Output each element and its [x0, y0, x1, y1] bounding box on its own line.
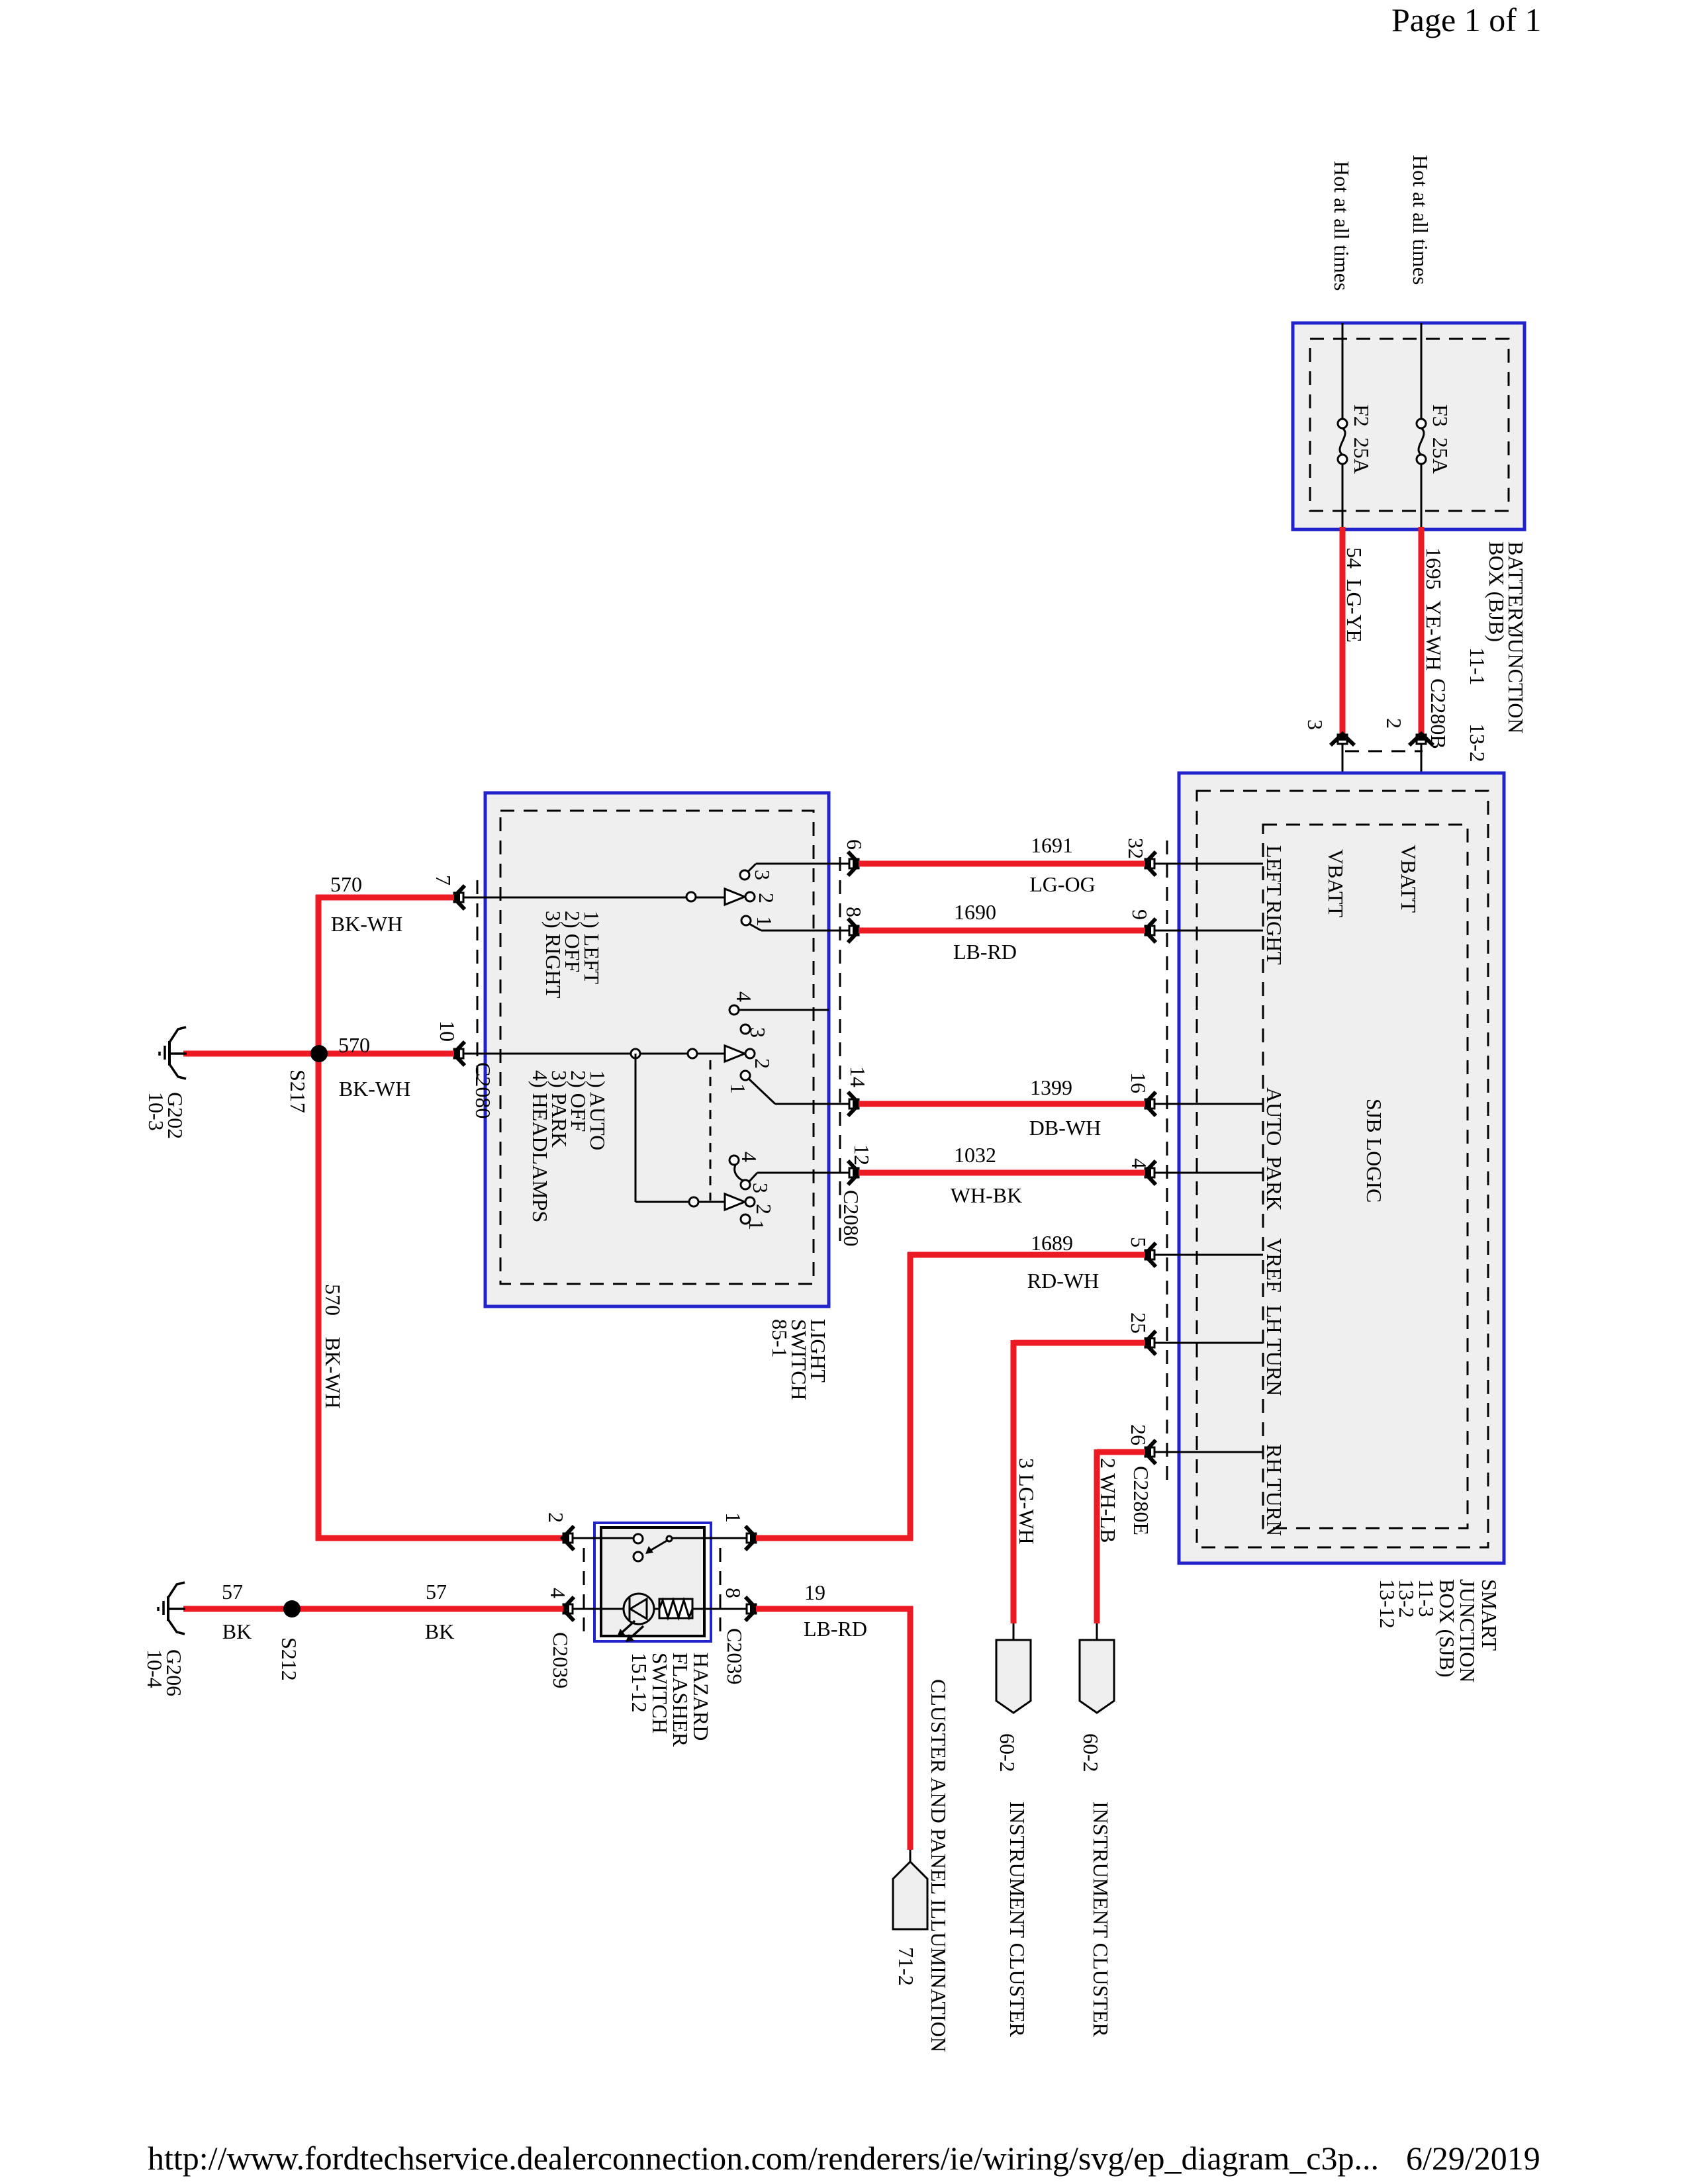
svg-text:2: 2	[752, 1204, 776, 1214]
C2280B dashed connector line	[1345, 751, 1423, 752]
svg-text:151-12: 151-12	[628, 1653, 651, 1713]
wire hazard pin1 to 1689	[756, 1535, 913, 1541]
pin 14 internal line	[775, 1103, 849, 1105]
smart junction box (SJB) outline	[1179, 773, 1504, 1563]
C2039 dashed line left	[583, 1548, 585, 1633]
svg-text:32: 32	[1124, 838, 1148, 859]
wire pin10 to wiper	[463, 1053, 726, 1055]
svg-text:13-2: 13-2	[1466, 723, 1489, 762]
svg-text:VBATT: VBATT	[1397, 844, 1421, 913]
contact 1 (turn)	[741, 916, 751, 925]
connector pin 10 C2080	[453, 1042, 465, 1066]
wire 570 BK-WH ground segment	[183, 1051, 454, 1057]
svg-text:VREF: VREF	[1262, 1238, 1286, 1293]
connector pin 3 of C2280B	[1331, 733, 1354, 745]
stub to 60-2 connector (right)	[1096, 1623, 1098, 1641]
resistor in hazard switch	[659, 1599, 692, 1618]
contact 4 (head)	[729, 1005, 739, 1015]
fuse F3 lead upper	[1421, 323, 1423, 420]
wire 2 WH-LB horizontal	[1097, 1449, 1145, 1455]
hazard pin8 internal line	[692, 1608, 747, 1610]
svg-text:3: 3	[1303, 719, 1327, 730]
svg-text:1690: 1690	[954, 900, 996, 924]
stub to 71-2 connector	[910, 1850, 912, 1863]
svg-text:19: 19	[804, 1580, 825, 1604]
hazard indicator LED	[624, 1594, 654, 1624]
connector pin 2 C2039	[562, 1526, 574, 1550]
svg-text:570: 570	[330, 872, 362, 896]
splice S212	[283, 1600, 301, 1617]
svg-text:S212: S212	[277, 1637, 301, 1681]
junction circle on headlamp wiper line	[688, 1049, 697, 1058]
SJB pin 16 internal line	[1154, 1103, 1263, 1105]
svg-text:570 BK-WH: 570 BK-WH	[321, 1284, 345, 1408]
wire 54 LG-YE	[1340, 527, 1346, 735]
C2080 dashed line left	[477, 880, 479, 1089]
svg-text:S217: S217	[286, 1069, 310, 1113]
splice S217	[310, 1045, 328, 1062]
svg-text:4: 4	[732, 991, 756, 1002]
connector pin 9 at SJB	[1144, 919, 1156, 942]
svg-text:C2280E: C2280E	[1129, 1466, 1153, 1535]
junction circle on lower wiper line	[689, 1197, 698, 1206]
hazard pin2 internal line	[573, 1537, 634, 1539]
contact 3 (head)	[741, 1024, 750, 1034]
svg-text:RH TURN: RH TURN	[1262, 1444, 1286, 1536]
svg-text:8: 8	[842, 907, 866, 917]
svg-text:3 LG-WH: 3 LG-WH	[1015, 1458, 1039, 1545]
wire 19 LB-RD horizontal	[756, 1606, 913, 1612]
SJB outer dashed boundary	[1197, 791, 1488, 1547]
svg-text:Page 1 of 1: Page 1 of 1	[1391, 1, 1541, 38]
bridge contact4-contact3	[735, 1165, 744, 1181]
svg-text:VBATT: VBATT	[1324, 849, 1348, 918]
hazard switch blade end	[633, 1552, 643, 1561]
svg-text:1691: 1691	[1031, 833, 1073, 857]
C2080 dashed line right	[839, 857, 841, 1241]
fuse F2 lead upper	[1342, 323, 1344, 420]
svg-text:1032: 1032	[954, 1143, 996, 1167]
connector pin 5 at SJB	[1144, 1243, 1156, 1267]
SJB pin 32 internal line	[1154, 863, 1263, 865]
contact1 to pin14 elbow	[749, 1079, 775, 1104]
svg-text:LB-RD: LB-RD	[953, 940, 1017, 964]
svg-text:F2 25A: F2 25A	[1350, 404, 1374, 474]
svg-text:RD-WH: RD-WH	[1027, 1269, 1099, 1293]
connector 71-2 cluster illumination	[893, 1862, 927, 1929]
SJB pin 4 internal line	[1154, 1172, 1263, 1174]
svg-text:BK-WH: BK-WH	[331, 912, 402, 936]
svg-text:C2280B: C2280B	[1427, 678, 1450, 749]
connector pin 16 at SJB	[1144, 1092, 1156, 1116]
wire stub pin2 into SJB	[1421, 744, 1423, 825]
ground G202	[160, 1027, 187, 1079]
connector pin 12 C2080	[848, 1161, 860, 1185]
svg-text:4: 4	[546, 1588, 570, 1598]
svg-text:C2080: C2080	[471, 1062, 495, 1118]
svg-text:DB-WH: DB-WH	[1029, 1116, 1101, 1140]
svg-text:85-1: 85-1	[768, 1319, 792, 1358]
svg-text:3: 3	[749, 1183, 773, 1193]
fuse F3 25A	[1417, 419, 1426, 464]
svg-text:WH-BK: WH-BK	[951, 1183, 1022, 1207]
svg-text:1399: 1399	[1030, 1075, 1072, 1099]
svg-text:BK-WH: BK-WH	[339, 1077, 410, 1101]
svg-text:14: 14	[846, 1066, 870, 1087]
light switch outline	[485, 793, 829, 1306]
wire 1689 vertical	[908, 1252, 914, 1541]
svg-text:26: 26	[1127, 1424, 1150, 1445]
connector pin 4 C2039	[562, 1597, 574, 1621]
pin 12 internal line	[757, 1172, 849, 1174]
SJB pin 9 internal line	[1154, 930, 1263, 932]
connector pin 25 at SJB	[1144, 1331, 1156, 1355]
connector pin 6 C2080	[848, 852, 860, 876]
svg-text:PARK: PARK	[1262, 1156, 1286, 1210]
svg-text:3: 3	[746, 1027, 770, 1038]
connector 60-2 instrument cluster (left)	[996, 1640, 1031, 1713]
hazard switch blade arrowhead	[645, 1546, 653, 1554]
pin 6 internal line	[756, 863, 849, 865]
fuse F2 lead lower	[1342, 463, 1344, 529]
svg-text:57: 57	[426, 1580, 447, 1604]
svg-text:Hot at all times: Hot at all times	[1330, 161, 1354, 291]
wire pin7 to wiper	[463, 897, 726, 899]
wire 1689 RD-WH horizontal	[908, 1252, 1145, 1258]
svg-text:C2039: C2039	[549, 1632, 573, 1688]
svg-text:1: 1	[726, 1083, 750, 1094]
wire 1691 LG-OG	[859, 861, 1145, 867]
wire 1690 LB-RD	[859, 928, 1145, 934]
turn switch wiper	[725, 889, 745, 905]
LED to resistor	[654, 1608, 659, 1610]
wire 3 LG-WH horizontal	[1013, 1340, 1145, 1346]
C2039 dashed line right	[720, 1548, 722, 1633]
svg-text:11-1: 11-1	[1466, 647, 1489, 685]
connector pin 1 C2039	[745, 1526, 757, 1550]
hazard switch contact left	[633, 1534, 643, 1543]
branch vertical line	[635, 1054, 637, 1202]
contact 3 (turn)	[740, 870, 749, 880]
svg-text:BK: BK	[425, 1619, 454, 1643]
contact 4 line	[739, 1009, 829, 1011]
svg-text:C2080: C2080	[839, 1190, 863, 1246]
svg-text:3) RIGHT: 3) RIGHT	[541, 911, 565, 999]
headlamp switch wiper	[725, 1046, 745, 1062]
mechanical link dashed	[710, 1060, 712, 1201]
contact 2 (head)	[745, 1049, 755, 1058]
svg-text:LG-OG: LG-OG	[1029, 872, 1096, 896]
svg-text:F3 25A: F3 25A	[1429, 404, 1452, 474]
svg-text:71-2: 71-2	[894, 1947, 918, 1986]
connector pin 4 at SJB	[1144, 1161, 1156, 1185]
svg-text:INSTRUMENT CLUSTER: INSTRUMENT CLUSTER	[1006, 1801, 1029, 2038]
SJB pin 5 internal line	[1154, 1254, 1263, 1256]
wire 19 vertical	[908, 1606, 914, 1850]
hazard switch contact right	[667, 1536, 672, 1541]
hazard pin1 internal line	[672, 1537, 747, 1539]
hazard pin4 internal line	[573, 1608, 624, 1610]
svg-text:570: 570	[338, 1033, 370, 1057]
wire 1399 DB-WH	[859, 1101, 1145, 1107]
fuse F2 25A	[1338, 419, 1347, 464]
SJB LOGIC dashed box	[1263, 825, 1468, 1528]
svg-text:1: 1	[745, 1220, 769, 1230]
svg-text:Hot at all times: Hot at all times	[1409, 155, 1432, 285]
svg-text:LB-RD: LB-RD	[804, 1617, 867, 1641]
svg-text:8: 8	[722, 1588, 745, 1598]
svg-text:57: 57	[222, 1580, 243, 1604]
svg-text:60-2: 60-2	[1079, 1733, 1103, 1772]
C2280 dashed connector line at SJB	[1166, 841, 1168, 1482]
svg-text:RIGHT: RIGHT	[1262, 900, 1286, 965]
junction circle on wiper line	[686, 892, 696, 901]
branch horizontal line	[635, 1201, 726, 1203]
svg-text:AUTO: AUTO	[1262, 1087, 1286, 1146]
svg-text:2: 2	[751, 1058, 774, 1069]
svg-text:2 WH-LB: 2 WH-LB	[1096, 1458, 1120, 1543]
svg-text:LH TURN: LH TURN	[1262, 1305, 1286, 1396]
svg-text:BOX (BJB): BOX (BJB)	[1485, 541, 1509, 642]
connector pin 14 C2080	[848, 1092, 860, 1116]
wire stub pin3 into SJB	[1342, 744, 1344, 825]
svg-text:LEFT: LEFT	[1262, 845, 1286, 896]
svg-text:1689: 1689	[1031, 1231, 1073, 1255]
wire 570 BK-WH vertical	[316, 895, 322, 1541]
svg-text:BK: BK	[222, 1619, 252, 1643]
contact3 to pin12 elbow	[749, 1173, 757, 1181]
light switch inner dashed boundary	[500, 811, 814, 1284]
SJB pin 25 internal line	[1154, 1342, 1263, 1344]
svg-text:CLUSTER AND PANEL ILLUMINATION: CLUSTER AND PANEL ILLUMINATION	[927, 1679, 951, 2052]
svg-text:9: 9	[1128, 909, 1152, 920]
wire 57 BK	[183, 1606, 563, 1612]
connector pin 7 C2080	[453, 886, 465, 909]
BJB inner dashed boundary	[1310, 339, 1509, 511]
svg-text:10-3: 10-3	[144, 1092, 168, 1131]
contact1 to pin8 elbow	[749, 924, 761, 931]
svg-text:25: 25	[1127, 1312, 1150, 1334]
svg-text:3: 3	[751, 870, 774, 880]
wire 570 to hazard pin2	[316, 1535, 563, 1541]
svg-text:54 LG-YE: 54 LG-YE	[1342, 547, 1366, 643]
svg-text:1: 1	[753, 916, 776, 927]
svg-text:http://www.fordtechservice.dea: http://www.fordtechservice.dealerconnect…	[148, 2140, 1379, 2177]
svg-text:4) HEADLAMPS: 4) HEADLAMPS	[528, 1070, 552, 1222]
fuse F3 lead lower	[1421, 463, 1423, 529]
svg-text:6: 6	[843, 839, 867, 850]
contact3 to pin6 elbow	[748, 864, 756, 872]
contact 2 (lower)	[745, 1197, 755, 1206]
contact 1 (head)	[741, 1071, 750, 1080]
svg-text:2: 2	[544, 1512, 568, 1523]
stub to 60-2 connector (left)	[1013, 1623, 1015, 1641]
svg-text:2: 2	[1382, 718, 1406, 729]
svg-text:16: 16	[1127, 1072, 1150, 1093]
wire 3 LG-WH vertical	[1011, 1340, 1017, 1623]
svg-text:13-12: 13-12	[1376, 1579, 1399, 1629]
svg-text:1695 YE-WH: 1695 YE-WH	[1422, 547, 1446, 671]
svg-text:10: 10	[436, 1021, 459, 1042]
connector pin 32 at SJB	[1144, 852, 1156, 876]
hazard flasher switch blue outline	[594, 1523, 711, 1641]
wire 1695 YE-WH	[1419, 527, 1425, 735]
lower pole wiper	[725, 1194, 745, 1210]
wire 2 WH-LB vertical	[1094, 1449, 1100, 1623]
svg-text:2: 2	[755, 893, 778, 903]
contact 2 (turn)	[745, 892, 755, 901]
branch junction circle	[631, 1049, 640, 1058]
contact 3 (lower)	[741, 1180, 750, 1189]
contact 4 (lower)	[729, 1156, 739, 1165]
svg-text:5: 5	[1127, 1237, 1150, 1248]
svg-text:C2039: C2039	[723, 1628, 747, 1684]
svg-text:SJB LOGIC: SJB LOGIC	[1362, 1099, 1386, 1203]
contact 1 (lower)	[741, 1214, 750, 1224]
svg-text:SMART: SMART	[1477, 1579, 1501, 1651]
svg-text:4: 4	[737, 1152, 761, 1162]
connector 60-2 instrument cluster (right)	[1080, 1640, 1114, 1713]
wire 570 BK-WH pin7 horizontal	[316, 895, 454, 901]
pin 8 internal line	[761, 930, 849, 932]
connector pin 8 C2039	[745, 1597, 757, 1621]
wire 1032 WH-BK	[859, 1170, 1145, 1176]
svg-text:7: 7	[432, 875, 455, 886]
svg-text:6/29/2019: 6/29/2019	[1406, 2140, 1540, 2177]
SJB pin 26 internal line	[1154, 1451, 1263, 1453]
svg-text:10-4: 10-4	[143, 1649, 167, 1688]
svg-text:INSTRUMENT CLUSTER: INSTRUMENT CLUSTER	[1089, 1801, 1113, 2038]
connector pin 8 C2080	[848, 919, 860, 942]
svg-text:1: 1	[722, 1512, 745, 1523]
hazard flasher switch body	[601, 1527, 704, 1636]
battery junction box (BJB) outline	[1293, 323, 1524, 529]
connector pin 26 at SJB	[1144, 1440, 1156, 1464]
svg-text:60-2: 60-2	[996, 1733, 1019, 1772]
hazard switch blade	[650, 1540, 668, 1551]
svg-text:4: 4	[1127, 1158, 1151, 1169]
svg-text:12: 12	[850, 1144, 874, 1165]
ground G206	[158, 1582, 185, 1634]
connector pin 2 of C2280B	[1409, 733, 1433, 745]
svg-text:JUNCTION: JUNCTION	[1504, 630, 1528, 733]
